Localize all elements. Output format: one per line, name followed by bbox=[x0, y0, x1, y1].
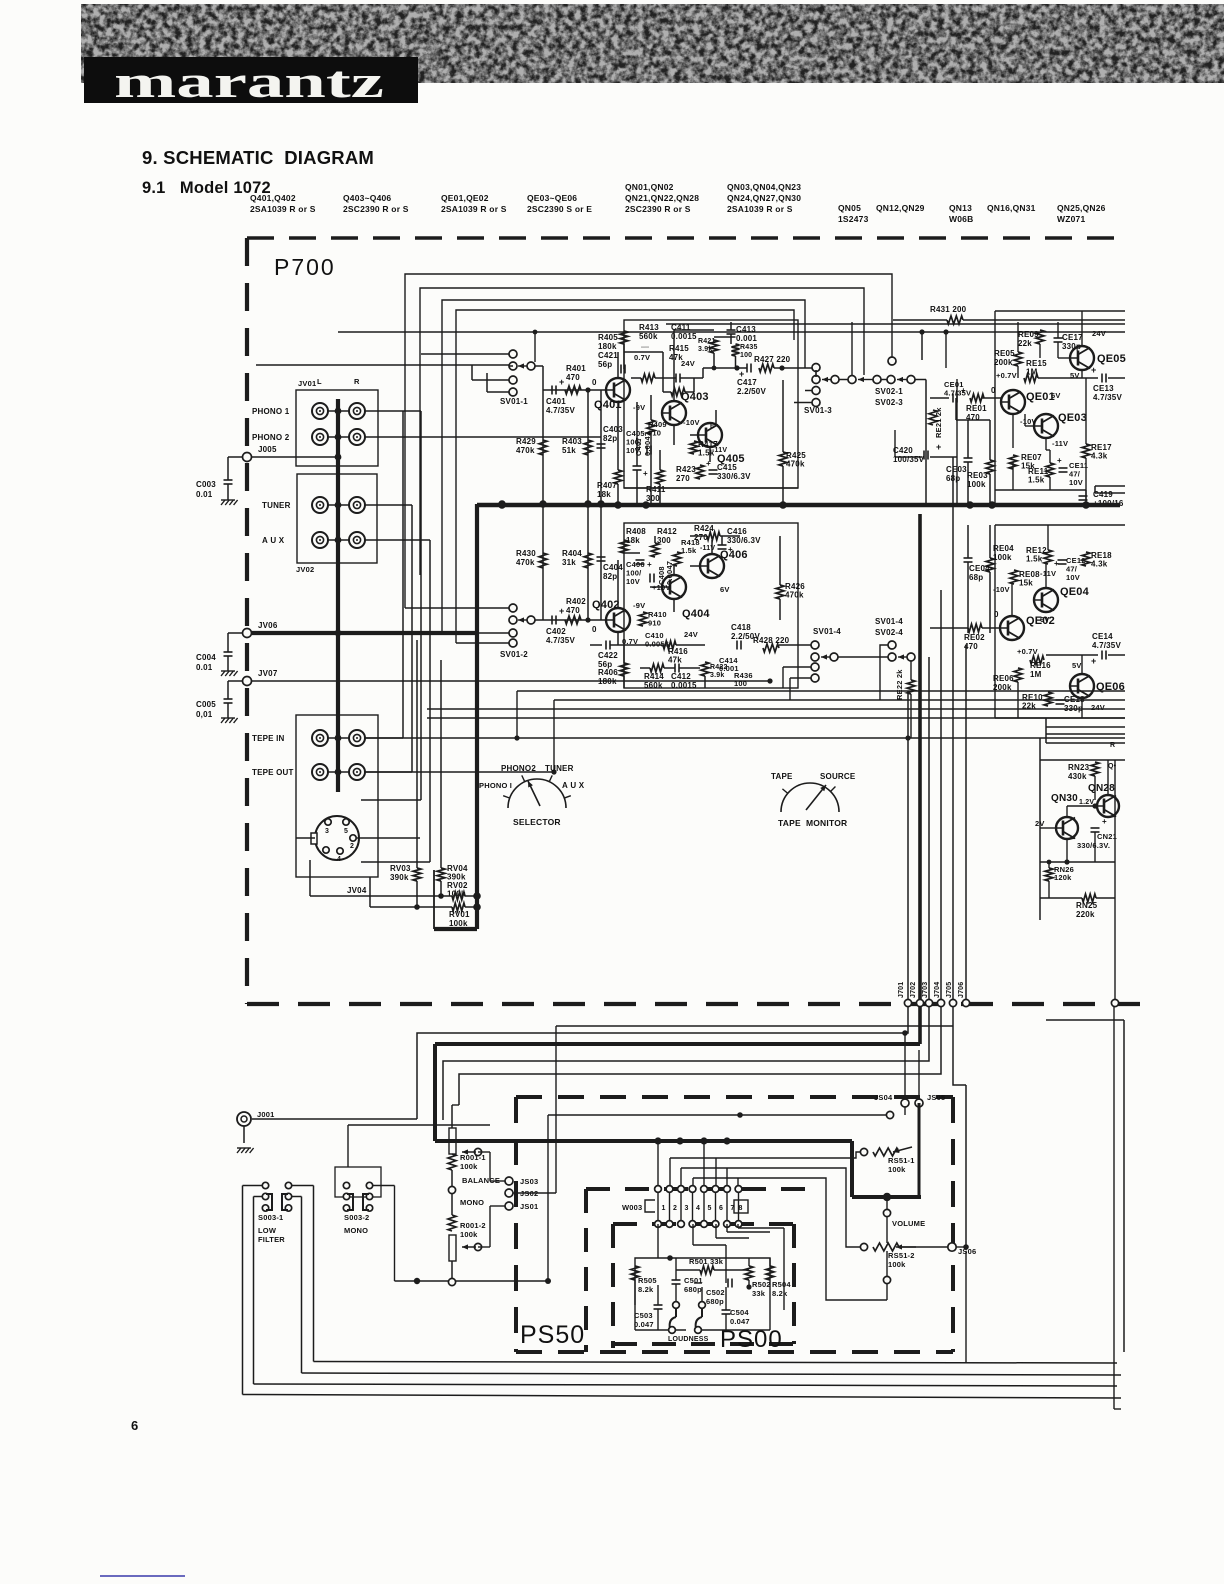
svg-text:R404: R404 bbox=[562, 549, 582, 558]
W003 pin 7 bottom contact bbox=[724, 1221, 731, 1228]
switch SV01-1 contact 4 bbox=[509, 388, 517, 396]
jack PHONO2 R bbox=[349, 429, 365, 445]
resistor R410 bbox=[639, 612, 647, 626]
svg-text:RE16: RE16 bbox=[1030, 661, 1051, 670]
wire qe low left v bbox=[994, 525, 996, 718]
svg-text:C503: C503 bbox=[634, 1311, 653, 1320]
svg-text:6: 6 bbox=[131, 1418, 138, 1433]
svg-text:C502: C502 bbox=[706, 1288, 725, 1297]
wire J703 route bbox=[443, 1006, 929, 1120]
svg-text:2SA1039 R or S: 2SA1039 R or S bbox=[441, 204, 507, 214]
resistor R417 bbox=[690, 441, 698, 454]
svg-text:QN13: QN13 bbox=[949, 203, 972, 213]
switch SV01-1 contact 2 bbox=[509, 362, 517, 370]
wire loud riser 716 bbox=[715, 1224, 717, 1238]
wire x517 v bbox=[516, 691, 518, 738]
wire sv011 c2 stub bbox=[509, 365, 513, 367]
svg-text:2SC2390 R or S: 2SC2390 R or S bbox=[625, 204, 691, 214]
transistor Q405 bbox=[698, 423, 722, 447]
switch S003-1 contact b3 bbox=[285, 1205, 291, 1211]
resistor R001-1 bbox=[448, 1154, 456, 1170]
transistor Q403 bbox=[662, 401, 686, 425]
svg-text:marantz: marantz bbox=[114, 56, 384, 107]
W003 pin 5 top contact bbox=[701, 1186, 708, 1193]
PS00 inner box top bbox=[613, 1222, 794, 1226]
wire J702 thick down bbox=[918, 1006, 922, 1044]
wire ce14 right bbox=[1108, 654, 1125, 656]
wire left riser x242 bbox=[242, 1186, 244, 1395]
svg-text:RE06: RE06 bbox=[993, 674, 1014, 683]
jack PHONO2 L bbox=[312, 429, 328, 445]
wire stub y527 bbox=[995, 526, 1125, 528]
wire qn30 coll bbox=[1066, 806, 1068, 817]
resistor RE06 bbox=[1014, 668, 1022, 682]
volume bus thick horizontal bbox=[435, 1139, 852, 1143]
switch SV01-2 contact 1 bbox=[509, 604, 517, 612]
wire sv012 c3 bbox=[442, 632, 509, 634]
wire C005 lead bbox=[227, 681, 229, 699]
capacitor C417 bbox=[747, 364, 751, 373]
svg-text:100: 100 bbox=[734, 679, 747, 688]
svg-text:390k: 390k bbox=[390, 873, 409, 882]
jack PHONO1 L bbox=[312, 403, 328, 419]
wire rv02 left drop bbox=[309, 860, 311, 896]
wire ch1 fb row bbox=[631, 377, 641, 379]
capacitor CE04 bbox=[964, 558, 973, 562]
svg-text:470k: 470k bbox=[516, 446, 535, 455]
svg-text:8.2k: 8.2k bbox=[638, 1285, 654, 1294]
wire sv012 c1 bbox=[405, 607, 509, 609]
resistor RE11 bbox=[1046, 463, 1054, 477]
svg-text:S003-1: S003-1 bbox=[258, 1213, 283, 1222]
wire re04 v bbox=[989, 525, 991, 558]
jack TAPE IN R bbox=[349, 730, 365, 746]
wire stub y734 bbox=[1046, 733, 1125, 735]
junction thick 704 bbox=[700, 1137, 707, 1144]
svg-text:R413: R413 bbox=[639, 323, 659, 332]
connector JS01 bbox=[505, 1202, 513, 1210]
capacitor C005 bbox=[224, 699, 233, 703]
svg-text:R431 200: R431 200 bbox=[930, 305, 967, 314]
resistor RE04 bbox=[986, 558, 994, 572]
svg-text:RS51-2: RS51-2 bbox=[888, 1251, 915, 1260]
wire re05 up bbox=[1017, 322, 1019, 352]
wire sv011 c4v bbox=[486, 373, 488, 392]
wire tap2 v bbox=[489, 1206, 491, 1247]
wire q402 em up bbox=[617, 560, 619, 608]
svg-text:FILTER: FILTER bbox=[258, 1235, 285, 1244]
tape monitor dial arc bbox=[781, 783, 839, 812]
svg-text:C417: C417 bbox=[737, 378, 757, 387]
svg-text:270: 270 bbox=[676, 474, 690, 483]
svg-text:100/35V: 100/35V bbox=[893, 455, 925, 464]
svg-text:C407: C407 bbox=[634, 437, 643, 456]
wire ch1 fb row2 bbox=[655, 377, 676, 379]
svg-text:R406: R406 bbox=[598, 668, 618, 677]
wire long y743 bbox=[1046, 742, 1125, 744]
wire tapout bbox=[886, 1284, 888, 1300]
wire s0032 b out bbox=[373, 1185, 395, 1187]
junction rn26 top bbox=[1047, 860, 1052, 865]
wire c420 right bbox=[930, 456, 957, 458]
svg-text:470k: 470k bbox=[786, 460, 805, 469]
svg-text:300: 300 bbox=[646, 494, 660, 503]
junction bus 502 bbox=[498, 501, 506, 509]
JV04 pin 1 bbox=[323, 847, 329, 853]
svg-text:RE03: RE03 bbox=[967, 471, 988, 480]
wire q403 em bbox=[673, 425, 675, 445]
wire c502 feed bbox=[725, 1245, 727, 1283]
wire PHONO2 jacks bbox=[328, 436, 349, 438]
wire ch1 top row bbox=[666, 323, 1125, 325]
wire c503 top bbox=[657, 1285, 659, 1305]
connector JS03 bbox=[505, 1177, 513, 1185]
volume bus thick h2 bbox=[852, 1195, 921, 1199]
svg-text:82p: 82p bbox=[603, 572, 617, 581]
wire W003 pin 8 bbox=[738, 1192, 740, 1221]
svg-text:Q406: Q406 bbox=[720, 549, 748, 561]
wire loud sw2 v bbox=[701, 1287, 703, 1301]
R001-2 pot body bbox=[449, 1235, 456, 1261]
svg-text:TAPE: TAPE bbox=[771, 772, 793, 781]
svg-text:R423: R423 bbox=[676, 465, 696, 474]
marantz logo box bbox=[84, 57, 418, 103]
wire loud bottom row bbox=[635, 1329, 686, 1331]
svg-text:C421: C421 bbox=[598, 351, 618, 360]
resistor R435 bbox=[732, 344, 740, 356]
wire rv01 row bbox=[370, 906, 452, 908]
svg-text:A U X: A U X bbox=[262, 536, 285, 545]
resistor R425 bbox=[779, 452, 787, 466]
wire JV07 right bbox=[252, 680, 770, 682]
wire x1114 foot bbox=[1114, 1408, 1121, 1410]
PS00 outer box left bbox=[584, 1189, 588, 1352]
wire c416 up bbox=[721, 536, 723, 545]
svg-text:R401: R401 bbox=[566, 364, 586, 373]
svg-text:QN28: QN28 bbox=[1088, 783, 1115, 794]
wire rs511 right bbox=[899, 1151, 919, 1153]
svg-text:SV01-2: SV01-2 bbox=[500, 650, 528, 659]
transistor QE02 bbox=[1000, 616, 1024, 640]
svg-text:1.5k: 1.5k bbox=[1026, 555, 1043, 564]
switch S003-2 contact b2 bbox=[366, 1193, 372, 1199]
svg-text:0.0047: 0.0047 bbox=[643, 432, 652, 456]
wire S003-1 pole b top bbox=[292, 1185, 314, 1187]
wire sv02 mid bbox=[839, 379, 848, 381]
wire J706 to JS06 bbox=[965, 1085, 967, 1247]
jack TUNER R bbox=[349, 497, 365, 513]
capacitor C420 bbox=[924, 451, 928, 460]
jack TAPE OUT L bbox=[312, 764, 328, 780]
resistor RN23 bbox=[1091, 762, 1099, 776]
wire loud riser 676 bbox=[675, 1224, 677, 1258]
wire r001 mid2 bbox=[451, 1194, 453, 1215]
loudness contact 1b bbox=[669, 1327, 676, 1334]
wire x588 ch2 bbox=[587, 529, 589, 620]
transistor QE04 bbox=[1034, 588, 1058, 612]
wire qn28 up bbox=[1107, 760, 1109, 795]
svg-text:PS50: PS50 bbox=[520, 1321, 585, 1349]
svg-text:2SA1039 R or S: 2SA1039 R or S bbox=[250, 204, 316, 214]
capacitor C406 bbox=[636, 560, 645, 564]
wire ce17 d bbox=[1057, 342, 1059, 358]
wire c412 right bbox=[679, 667, 700, 669]
junction vol bus 887 bbox=[883, 1193, 891, 1201]
wire RV04 bottom bbox=[440, 881, 442, 896]
capacitor CE14 bbox=[1102, 651, 1106, 660]
svg-text:JV07: JV07 bbox=[258, 669, 278, 678]
wire rs511 to thick bbox=[918, 1103, 921, 1197]
wire qn30 em bbox=[1066, 839, 1068, 862]
svg-text:JV06: JV06 bbox=[258, 621, 278, 630]
switch SV01-3 arrow bbox=[822, 377, 831, 382]
wire r001 bottom bbox=[451, 1261, 453, 1278]
wire qe02 base bbox=[982, 627, 1000, 629]
svg-text:R001-1: R001-1 bbox=[460, 1153, 486, 1162]
wire x535 drop bbox=[534, 332, 536, 362]
wire ce13 right bbox=[1108, 377, 1125, 379]
wire s0032 top feed bbox=[347, 1125, 349, 1167]
connector qn bottom bbox=[1111, 999, 1118, 1006]
svg-text:330/6.3V: 330/6.3V bbox=[717, 472, 751, 481]
resistor RE09 bbox=[1036, 330, 1044, 344]
switch S003-2 box bbox=[335, 1167, 381, 1197]
wire x421 horiz tape bbox=[361, 799, 421, 801]
wire loud riser 658 bbox=[657, 1224, 659, 1258]
resistor R409 bbox=[647, 420, 655, 434]
svg-text:Q402: Q402 bbox=[592, 599, 620, 611]
svg-text:22k: 22k bbox=[1018, 339, 1032, 348]
wire sv013 c4 bbox=[794, 402, 812, 404]
svg-text:QE05: QE05 bbox=[1097, 353, 1126, 365]
svg-text:RE02: RE02 bbox=[964, 633, 985, 642]
wire JV07 cap lead bbox=[228, 680, 243, 682]
junction x588 bus bbox=[584, 500, 592, 508]
wire ch1 vert 663 bbox=[662, 352, 664, 392]
resistor R414 bbox=[650, 664, 664, 672]
JV04 pin 2 bbox=[350, 835, 356, 841]
svg-text:2.2/50V: 2.2/50V bbox=[737, 387, 766, 396]
wire PHONO2 R out bbox=[365, 436, 601, 438]
svg-text:10V: 10V bbox=[1069, 478, 1083, 487]
svg-text:2SA1039 R or S: 2SA1039 R or S bbox=[727, 204, 793, 214]
wire c420 row bbox=[895, 456, 922, 458]
svg-text:51k: 51k bbox=[562, 446, 576, 455]
wire J005 cap lead bbox=[228, 456, 243, 458]
svg-text:1.5k: 1.5k bbox=[698, 449, 715, 458]
wire loud riser 727 bbox=[726, 1224, 728, 1232]
switch SV01-3 contact 1 bbox=[812, 364, 820, 372]
wire tape out long bbox=[365, 771, 554, 773]
svg-text:3.9k: 3.9k bbox=[710, 672, 724, 679]
wire W003 pin 7 bbox=[726, 1192, 728, 1221]
svg-text:+0.7V: +0.7V bbox=[996, 371, 1017, 380]
wire r412 top bbox=[645, 535, 690, 537]
R001-1 pot body bbox=[449, 1128, 456, 1154]
junction bus 1086 bbox=[1082, 501, 1090, 509]
svg-text:47k: 47k bbox=[668, 656, 682, 665]
wire qe05 coll bbox=[1081, 311, 1083, 346]
wire q405 col bbox=[715, 410, 717, 424]
svg-text:0: 0 bbox=[991, 386, 996, 395]
wire bundle x430 bbox=[429, 540, 431, 862]
wire c503 down bbox=[657, 1309, 659, 1330]
svg-text:R424: R424 bbox=[694, 524, 714, 533]
wire re22 down bbox=[910, 694, 912, 738]
connector block JV03 outline bbox=[296, 715, 378, 877]
wire r407 down bbox=[617, 484, 619, 504]
wire C003 lead bbox=[227, 457, 229, 480]
svg-text:-11V: -11V bbox=[1052, 439, 1068, 448]
svg-text:0: 0 bbox=[592, 625, 597, 634]
wire re12 v bbox=[1047, 525, 1049, 550]
wire q405 base lead bbox=[690, 434, 698, 436]
wire JV06 to bus thick bbox=[252, 631, 478, 635]
svg-text:SELECTOR: SELECTOR bbox=[513, 817, 561, 827]
selector needle bbox=[528, 781, 540, 806]
wire loud riser 738 bbox=[737, 1224, 739, 1228]
svg-text:QE04: QE04 bbox=[1060, 586, 1090, 598]
junction RV02 bus bbox=[473, 892, 481, 900]
svg-text:0.0015: 0.0015 bbox=[671, 332, 697, 341]
capacitor C501 bbox=[672, 1280, 681, 1284]
wire re18 up bbox=[1085, 525, 1087, 552]
svg-text:SV01-3: SV01-3 bbox=[804, 406, 832, 415]
resistor R401 bbox=[565, 386, 581, 394]
svg-text:1M: 1M bbox=[1030, 670, 1042, 679]
svg-text:3: 3 bbox=[325, 828, 329, 835]
svg-text:R: R bbox=[1110, 742, 1115, 749]
svg-text:56p: 56p bbox=[598, 360, 612, 369]
wire q402 coll down bbox=[617, 632, 619, 645]
wire re06 down bbox=[1017, 682, 1019, 718]
wire ch1 fb row3 bbox=[680, 377, 703, 379]
svg-text:JS04: JS04 bbox=[874, 1093, 893, 1102]
PS00 inner box bottom bbox=[613, 1342, 794, 1346]
wire loud riser 693b bbox=[693, 1244, 726, 1246]
switch S003-1 contact a3 bbox=[262, 1205, 268, 1211]
svg-text:CE14: CE14 bbox=[1092, 632, 1113, 641]
W003 pin 6 top contact bbox=[712, 1186, 719, 1193]
wire W003 pin 6 bbox=[715, 1192, 717, 1221]
svg-text:C418: C418 bbox=[731, 623, 751, 632]
resistor RE12 bbox=[1044, 550, 1052, 564]
wire r414 row bbox=[640, 667, 650, 669]
capacitor CE11 bbox=[1059, 468, 1068, 472]
wire w003 riser 680 bbox=[679, 1141, 681, 1150]
wire c413 v bbox=[730, 322, 732, 330]
wire rv01 to bus bbox=[465, 906, 477, 908]
wire c502 row bbox=[732, 1286, 749, 1288]
wire fb to c417 bbox=[703, 367, 747, 369]
svg-text:J701: J701 bbox=[898, 982, 905, 998]
wire r435 top row bbox=[714, 336, 736, 338]
svg-text:SV02-4: SV02-4 bbox=[875, 628, 903, 637]
junction bus 970 bbox=[966, 501, 974, 509]
resistor R408 bbox=[620, 540, 628, 553]
junction bus 646 bbox=[642, 501, 650, 509]
svg-text:68p: 68p bbox=[969, 573, 983, 582]
wire q401 em down bbox=[617, 402, 619, 470]
svg-text:3.9k: 3.9k bbox=[698, 346, 712, 353]
svg-text:0.047: 0.047 bbox=[730, 1317, 750, 1326]
svg-text:RE21 2k: RE21 2k bbox=[934, 407, 943, 438]
wire r0011 tap to js03 bbox=[477, 1134, 479, 1148]
wire qn28 em bbox=[1114, 812, 1116, 815]
wire qe03 base bbox=[1025, 425, 1034, 427]
wire qe top rail bbox=[995, 310, 1125, 312]
wire j706 below bbox=[965, 1247, 967, 1303]
junction thick 680 bbox=[676, 1137, 683, 1144]
wire W003 pin 3 bbox=[680, 1192, 682, 1221]
wire J704 route bbox=[459, 1006, 941, 1105]
svg-text:RV01: RV01 bbox=[449, 910, 470, 919]
wire c503 up bbox=[657, 1258, 659, 1305]
wire loud riser 693 bbox=[692, 1224, 694, 1245]
wire W003 pin 8 riser bbox=[737, 1178, 739, 1186]
svg-text:LOW: LOW bbox=[258, 1226, 277, 1235]
ground C004 bbox=[221, 671, 238, 676]
switch SV02-4 arrow bbox=[898, 654, 907, 659]
wire re11 top bbox=[1049, 450, 1051, 463]
svg-text:100k: 100k bbox=[888, 1260, 906, 1269]
wire 5v rail bbox=[930, 377, 1024, 379]
wire sv024 c1 route bbox=[880, 645, 888, 700]
svg-text:TUNER: TUNER bbox=[262, 501, 291, 510]
resistor R001-2 bbox=[448, 1215, 456, 1231]
svg-text:1: 1 bbox=[662, 1205, 666, 1212]
svg-text:RE05: RE05 bbox=[994, 349, 1015, 358]
wire x556 stub bbox=[513, 1192, 556, 1194]
wire W003 pin 5 riser bbox=[703, 1141, 705, 1186]
wire J706 down bbox=[965, 1006, 967, 1085]
wire sv014 c3 bbox=[790, 677, 811, 679]
capacitor CE01 bbox=[953, 394, 957, 403]
wire re15 right bbox=[1038, 377, 1098, 379]
svg-text:C005: C005 bbox=[196, 700, 216, 709]
junction c502 bbox=[746, 1284, 751, 1289]
wire J701 vertical bbox=[907, 691, 909, 1000]
svg-text:100k: 100k bbox=[967, 480, 986, 489]
wire qe inner bottom bbox=[995, 489, 1086, 491]
wire sv02 wiper right bbox=[881, 379, 887, 381]
wire r0012 tap lead bbox=[477, 1220, 479, 1243]
wire x420 din bbox=[419, 800, 421, 838]
wire rn26 down bbox=[1048, 881, 1050, 898]
svg-text:SOURCE: SOURCE bbox=[820, 772, 856, 781]
wire J706 vertical bbox=[965, 645, 967, 1000]
svg-text:QE01,QE02: QE01,QE02 bbox=[441, 193, 489, 203]
wire re09 up bbox=[1039, 311, 1041, 330]
wire rs512 tap bbox=[886, 1251, 888, 1276]
switch S003-2 pole a bracket bbox=[347, 1194, 353, 1210]
svg-text:P700: P700 bbox=[274, 254, 336, 280]
capacitor CE03 bbox=[964, 458, 973, 462]
svg-text:C403: C403 bbox=[603, 425, 623, 434]
wire re07 down bbox=[1012, 462, 1014, 490]
svg-text:-11V: -11V bbox=[700, 545, 715, 552]
wire r426 up bbox=[779, 536, 781, 585]
wire bundle x421 bbox=[420, 411, 422, 800]
wire sv011 c3v bbox=[471, 365, 473, 380]
svg-text:QN24,QN27,QN30: QN24,QN27,QN30 bbox=[727, 193, 801, 203]
wire long y727 bbox=[1046, 726, 1125, 728]
wire c502 left bbox=[694, 1282, 702, 1284]
switch SV02-4 contact b bbox=[888, 653, 896, 661]
svg-text:C004: C004 bbox=[196, 653, 216, 662]
wire qn30 row bbox=[1067, 805, 1095, 807]
switch SV01-3 contact 4 bbox=[812, 399, 820, 407]
